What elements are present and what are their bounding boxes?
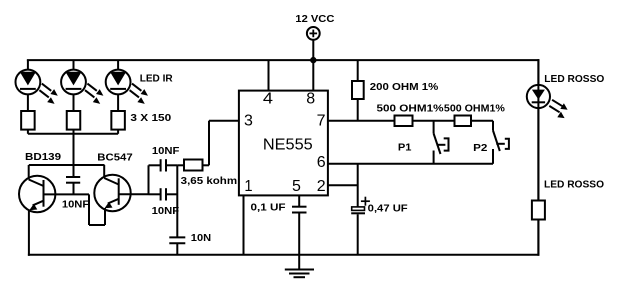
svg-text:BD139: BD139 <box>25 151 61 163</box>
svg-text:3: 3 <box>244 112 253 129</box>
wire VCC stem <box>312 40 314 60</box>
svg-text:2: 2 <box>317 178 326 195</box>
wire pin3 horizontal <box>209 120 239 122</box>
svg-text:P1: P1 <box>398 142 412 154</box>
capacitor 10NF C3 <box>149 188 178 200</box>
svg-text:NE555: NE555 <box>263 136 313 153</box>
capacitor 10NF C1 <box>66 177 80 194</box>
svg-text:BC547: BC547 <box>97 151 133 163</box>
wire caps right vertical <box>176 165 178 237</box>
LED D3 <box>106 60 148 112</box>
LED D1 <box>16 60 58 112</box>
wire pin1 down <box>243 195 245 254</box>
svg-text:500 OHM1%: 500 OHM1% <box>377 103 445 115</box>
svg-text:LED IR: LED IR <box>140 73 173 85</box>
svg-text:8: 8 <box>306 90 315 107</box>
svg-text:5: 5 <box>292 178 301 195</box>
wire pin6 row <box>328 163 493 165</box>
svg-text:7: 7 <box>317 112 326 129</box>
wire collector bus <box>29 164 105 166</box>
resistor 150 #3 <box>111 111 125 134</box>
resistor 150 #2 <box>67 111 81 134</box>
transistor BC547 <box>89 165 149 225</box>
wire pin3 vertical <box>208 121 210 166</box>
wire middle column down <box>73 134 75 177</box>
svg-text:500 OHM1%: 500 OHM1% <box>444 103 506 115</box>
svg-text:LED ROSSO: LED ROSSO <box>544 73 604 85</box>
ground <box>285 255 314 277</box>
svg-text:1: 1 <box>244 178 252 195</box>
svg-text:10NF: 10NF <box>62 199 90 211</box>
pin 4 <box>263 60 273 107</box>
wire caps left vertical <box>148 165 150 194</box>
pin 8 <box>306 60 315 107</box>
wire LED bottom bus <box>28 133 118 135</box>
svg-text:200 OHM 1%: 200 OHM 1% <box>370 81 439 93</box>
resistor 3,65 kohm <box>177 160 209 171</box>
pushbutton P2 <box>493 121 509 164</box>
IC U1 NE555 box <box>239 91 328 196</box>
wire pin7 row <box>328 120 395 122</box>
VCC terminal <box>307 27 320 40</box>
LED D4 rosso <box>527 60 568 200</box>
wire right vertical <box>537 59 539 256</box>
transistor BD139 <box>19 165 89 256</box>
svg-text:10NF: 10NF <box>152 145 180 157</box>
svg-text:3,65 kohm: 3,65 kohm <box>181 175 237 187</box>
wire top rail <box>27 59 540 61</box>
svg-text:3 X 150: 3 X 150 <box>130 112 171 124</box>
resistor 200 OHM 1% <box>352 60 364 121</box>
svg-text:0,1 UF: 0,1 UF <box>251 201 287 213</box>
resistor 500 OHM1% #1 <box>395 116 455 127</box>
wire pin2 stub <box>328 184 358 186</box>
svg-text:0,47 UF: 0,47 UF <box>368 202 409 214</box>
svg-text:12 VCC: 12 VCC <box>295 13 334 25</box>
svg-text:10NF: 10NF <box>152 205 180 217</box>
svg-text:P2: P2 <box>473 142 487 154</box>
capacitor 10NF C2 <box>149 159 178 171</box>
svg-text:10N: 10N <box>191 232 211 244</box>
resistor LED rosso <box>532 201 545 255</box>
capacitor 0,1 UF <box>292 195 307 254</box>
svg-text:LED ROSSO: LED ROSSO <box>544 179 604 191</box>
resistor 500 OHM1% #2 <box>455 116 494 127</box>
capacitor 10N <box>169 237 185 254</box>
LED D2 <box>61 60 103 112</box>
pushbutton P1 <box>434 121 449 164</box>
svg-text:6: 6 <box>317 154 326 171</box>
resistor 150 #1 <box>21 111 35 134</box>
wire bottom rail <box>28 254 540 256</box>
svg-text:4: 4 <box>263 90 273 107</box>
node junction dot <box>310 57 316 63</box>
wire cap 0,47 vertical <box>357 164 359 207</box>
capacitor 0,47 UF <box>351 197 370 255</box>
